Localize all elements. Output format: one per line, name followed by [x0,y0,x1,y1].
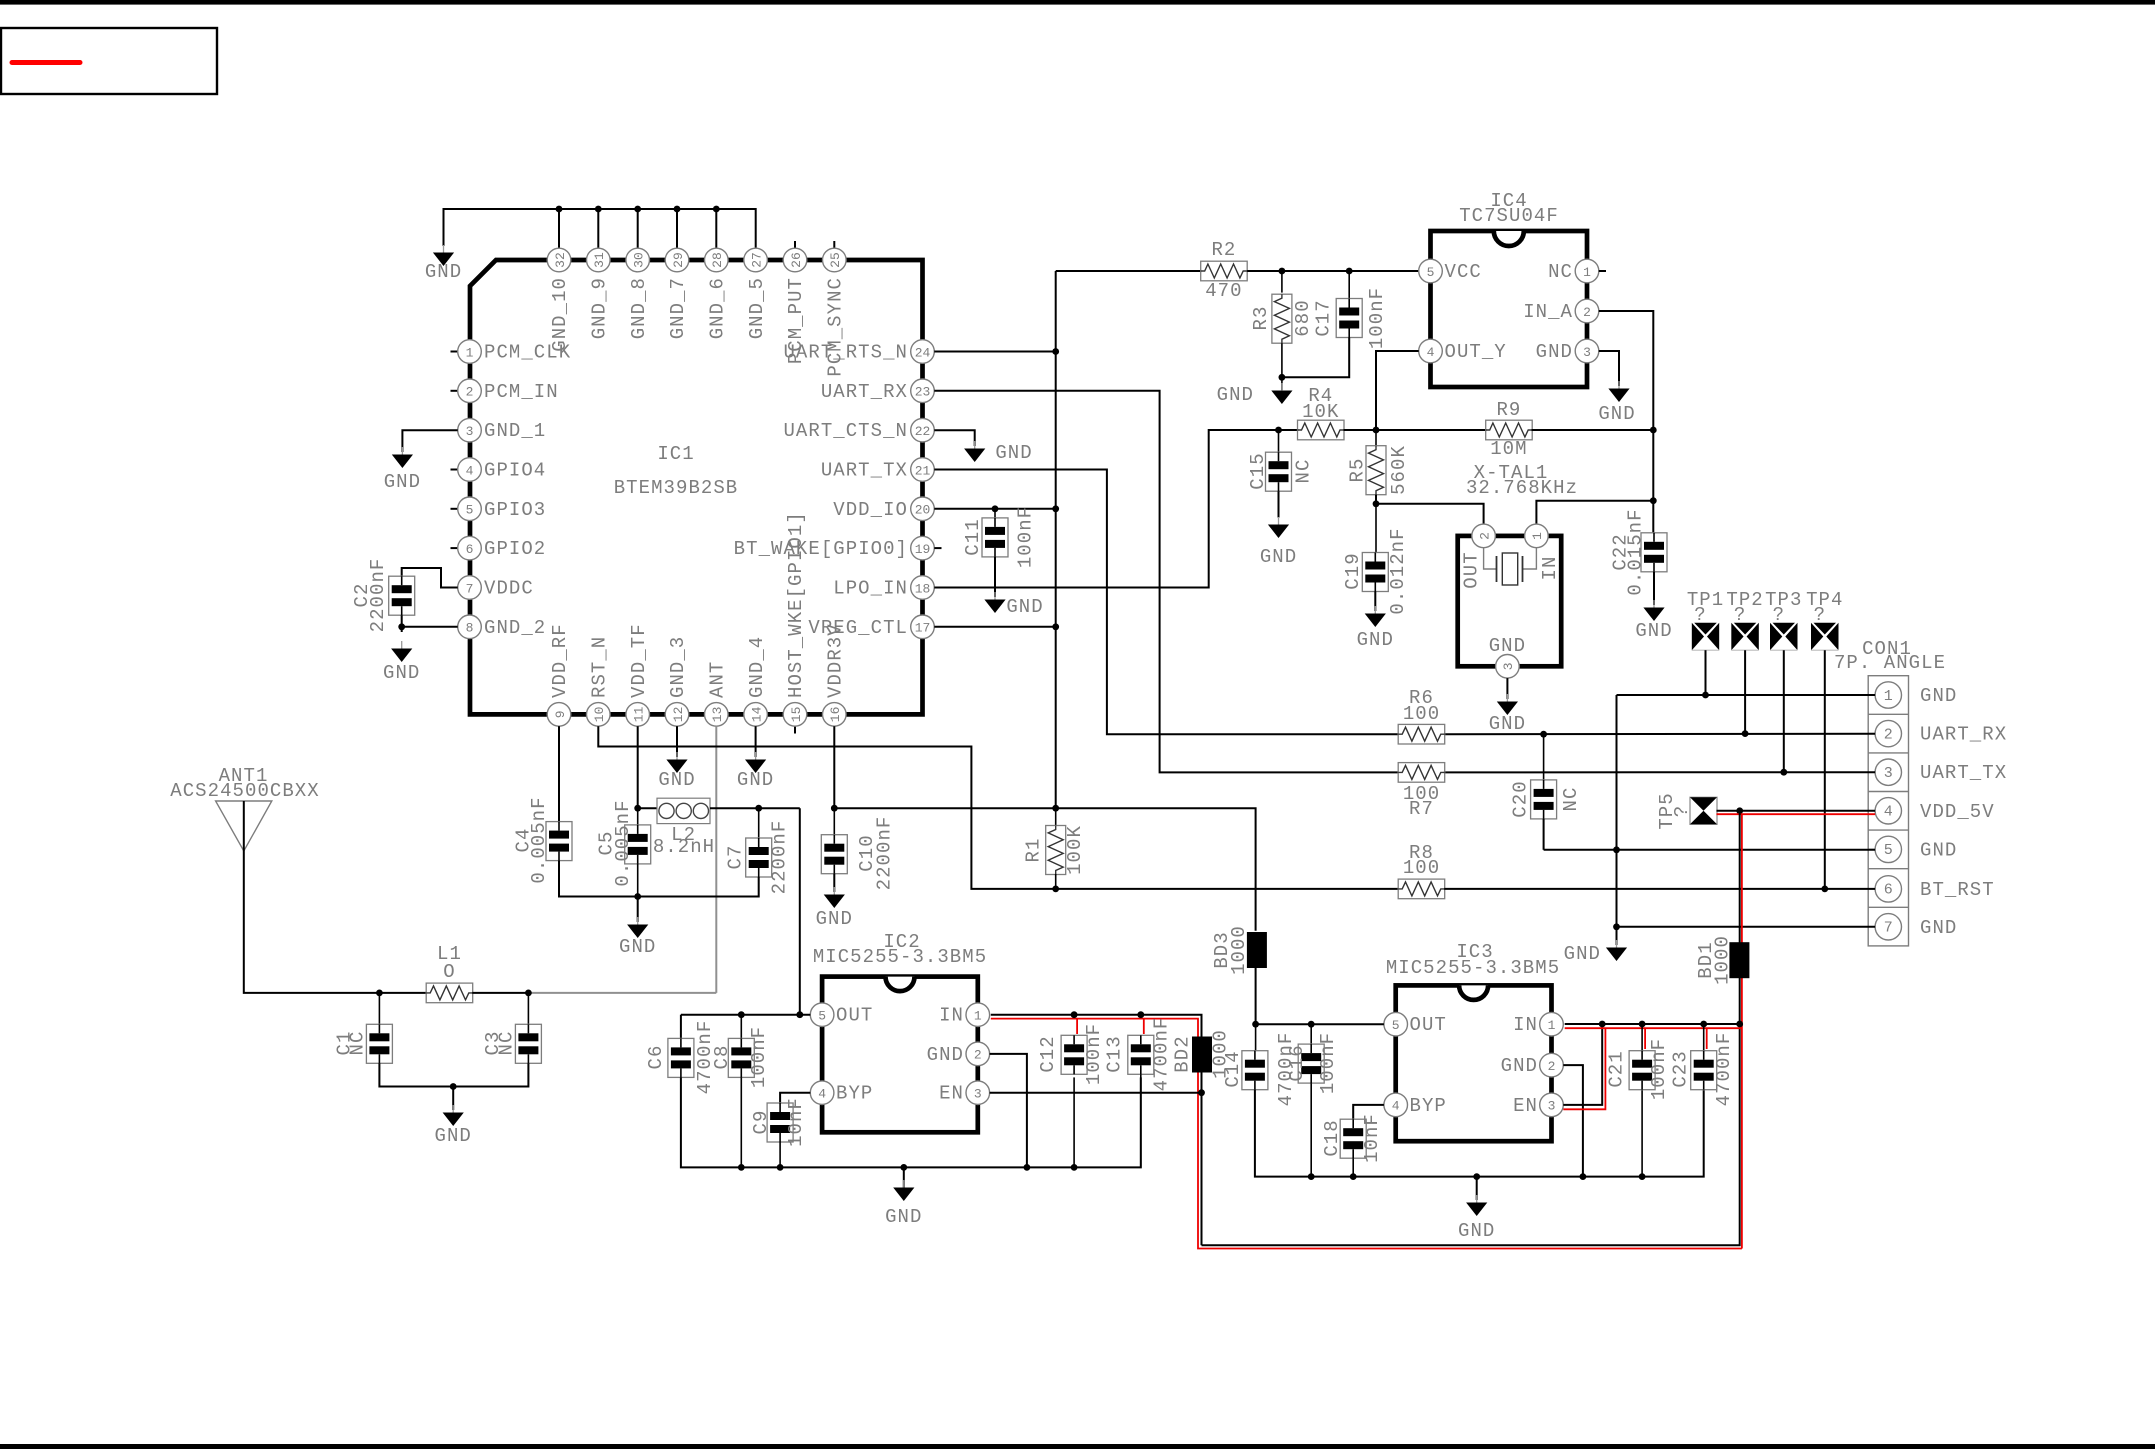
svg-text:EN: EN [939,1083,964,1105]
svg-text:GND: GND [1920,917,1957,939]
wire 3V3 rail pin16 to R1 and BD3 [834,808,1255,931]
svg-text:HOST_WKE[GPIO1]: HOST_WKE[GPIO1] [785,511,807,698]
svg-text:GND: GND [1635,620,1672,642]
junction GND tap below C5 [634,893,641,900]
wire C1/C3 to ground [379,1063,528,1086]
junction C8 top [738,1011,745,1018]
capacitor C7 [758,808,760,838]
junction C3 tap [525,990,532,997]
capacitor C3 [527,993,529,1024]
svg-text:4: 4 [1392,1099,1400,1114]
stub pin 26 [794,241,796,248]
junction IC3 pin2 gnd [1580,1173,1587,1180]
wire pin drop to GND bus [558,209,560,248]
svg-text:C14: C14 [1222,1050,1244,1087]
red wire IC3 IN [1565,1027,1742,1029]
wire C22 to ground [1653,572,1655,605]
resistor R1 [1055,808,1057,826]
svg-text:NC: NC [1560,787,1582,812]
junction C12 top [1071,1011,1078,1018]
stub pin 25 [833,241,835,248]
junction gnd stem IC3 [1473,1173,1480,1180]
pin 9 of IC1 [547,703,571,727]
testpoint TP3 [1770,623,1782,650]
pin 19 of IC1 [911,536,935,560]
stub pin 1 [451,351,458,353]
resistor R5 [1375,430,1377,446]
svg-text:560K: 560K [1388,445,1410,495]
wire pin drop to GND bus [637,209,639,248]
svg-text:OUT: OUT [1460,551,1482,588]
svg-text:5: 5 [1427,265,1435,280]
wire pin14 GND_4 [755,726,757,757]
pin 6 of CON1 [1875,876,1901,902]
pin 1 of X-TAL1 [1525,524,1549,548]
svg-text:C9: C9 [750,1110,772,1135]
pin 23 of IC1 [911,379,935,403]
ground symbol GND_4 [755,752,757,760]
svg-text:GND: GND [1536,341,1573,363]
svg-text:GND: GND [1489,713,1526,735]
pin 3 of IC2 [966,1081,990,1105]
svg-text:O: O [443,961,455,983]
svg-text:EN: EN [1513,1095,1538,1117]
svg-text:GND_2: GND_2 [484,617,546,639]
wire IC2 BYP to C9 [780,1093,810,1103]
capacitor C12 [1061,1035,1087,1074]
wire EN tie black [1563,1024,1602,1105]
svg-text:?: ? [1773,604,1785,626]
svg-text:0.015nF: 0.015nF [1625,508,1647,595]
wire pin17 VREG_CTL [934,626,1055,628]
svg-text:16: 16 [828,707,843,723]
svg-text:2: 2 [466,385,474,400]
ground symbol below C5 [637,917,639,925]
svg-text:IN_A: IN_A [1523,301,1573,323]
svg-text:GND: GND [1920,685,1957,707]
svg-text:7: 7 [466,581,474,596]
wire TP3 to CON1 pin3 net [1783,650,1785,772]
pin 2 of IC1 [458,379,482,403]
svg-text:OUT: OUT [836,1005,873,1027]
wire C19 to ground [1374,592,1376,612]
svg-text:GND: GND [1458,1220,1495,1242]
wire IC3 IN black [1565,1023,1740,1025]
pin 6 of IC1 [458,536,482,560]
svg-text:GND_3: GND_3 [667,636,689,698]
pin 11 of IC1 [626,703,650,727]
svg-text:2200nF: 2200nF [367,558,389,633]
svg-text:GND: GND [384,471,421,493]
svg-text:2: 2 [1548,1059,1556,1074]
pin 5 of IC2 [810,1003,834,1027]
wire L2 right to C7 top [710,807,800,809]
ground symbol below IC2 [903,1180,905,1188]
pin 4 of CON1 [1875,798,1901,824]
svg-text:4: 4 [1427,345,1435,360]
ic IC4 outline [1431,231,1588,387]
svg-text:32.768KHz: 32.768KHz [1466,477,1578,499]
pin 2 of IC3 [1540,1053,1564,1077]
junction GND/pin5 net [1613,846,1620,853]
red stub C12 [1076,1019,1078,1034]
capacitor C5 [637,808,639,825]
junction C13 top [1137,1011,1144,1018]
ground symbol UART_CTS_N [974,441,976,449]
red stub C23 [1706,1028,1708,1049]
pin 2 of IC2 [966,1042,990,1066]
pin 29 of IC1 [665,248,689,272]
wire R7 to CON1 pin3 [1444,771,1875,773]
svg-text:4: 4 [818,1087,826,1102]
svg-text:TC7SU04F: TC7SU04F [1459,205,1559,227]
top border bar [0,0,2155,5]
svg-text:13: 13 [710,707,725,723]
svg-text:BTEM39B2SB: BTEM39B2SB [614,477,739,499]
wire C20 bottom [1543,819,1545,850]
wire pin16 VDDR3V down [833,726,835,808]
svg-text:UART_TX: UART_TX [1920,762,2007,784]
wire CON1 pin1 GND [1617,694,1876,696]
svg-text:GND: GND [658,769,695,791]
svg-text:GND: GND [737,769,774,791]
svg-text:NC: NC [1293,459,1315,484]
svg-text:GND: GND [1598,403,1635,425]
capacitor C19 [1375,504,1377,553]
ground symbol below C15 [1278,517,1280,525]
wire C9 bottom [779,1142,781,1167]
stub pin 4 [451,469,458,471]
svg-text:GND: GND [435,1125,472,1147]
svg-text:100nF: 100nF [1317,1032,1339,1094]
svg-text:3: 3 [1884,765,1893,782]
svg-text:GND: GND [816,908,853,930]
capacitor C17 [1348,271,1350,299]
svg-text:10nF: 10nF [1361,1113,1383,1163]
wire IC3 pin2 GND [1563,1065,1583,1177]
svg-text:GND: GND [1564,943,1601,965]
wire CON1 pin7 GND [1617,926,1876,928]
pin 25 of IC1 [823,248,847,272]
testpoint TP2 [1731,623,1743,650]
bottom border bar [0,1444,2155,1449]
svg-text:30: 30 [632,252,647,268]
pin 28 of IC1 [705,248,729,272]
svg-text:IN: IN [1513,1014,1538,1036]
svg-text:12: 12 [671,707,686,723]
svg-text:8: 8 [466,621,474,636]
svg-text:GND_6: GND_6 [707,277,729,339]
svg-text:RST_N: RST_N [589,636,611,698]
svg-text:2200nF: 2200nF [769,820,791,895]
junction R6/TP2 [1742,730,1749,737]
pin 8 of IC1 [458,615,482,639]
svg-text:4: 4 [1884,804,1893,821]
svg-text:C17: C17 [1313,299,1335,336]
svg-text:9: 9 [553,710,568,718]
red stub C13 [1143,1019,1145,1034]
pin 20 of IC1 [911,497,935,521]
svg-text:GND_4: GND_4 [746,636,768,698]
svg-text:IN: IN [1539,556,1561,581]
svg-text:VDDC: VDDC [484,578,534,600]
svg-text:VDDR3V: VDDR3V [825,623,847,698]
svg-text:100: 100 [1403,703,1440,725]
svg-text:UART_RX: UART_RX [1920,724,2007,746]
svg-text:3: 3 [974,1087,982,1102]
junction C15 top [1275,427,1282,434]
wire IC2 pin2 GND [990,1054,1027,1168]
junction C16 top [1308,1021,1315,1028]
junction EN/BD2 [1198,1089,1205,1096]
pin 5 of IC3 [1384,1012,1408,1036]
junction C18 gnd [1350,1173,1357,1180]
wire GND vertical to pin7 net [1616,695,1618,927]
junction IN_A/XTAL1 pin1 [1650,497,1657,504]
svg-text:5: 5 [1392,1018,1400,1033]
svg-text:MIC5255-3.3BM5: MIC5255-3.3BM5 [1386,957,1560,979]
wire ANT net to pin13 (gray) [528,992,716,994]
svg-text:1: 1 [1548,1018,1556,1033]
svg-text:IN: IN [939,1005,964,1027]
svg-text:GPIO4: GPIO4 [484,460,546,482]
svg-text:24: 24 [915,345,931,360]
svg-text:1: 1 [1583,265,1591,280]
crystal X-TAL1 outline [1458,536,1562,666]
title block box [1,28,217,94]
pin 22 of IC1 [911,418,935,442]
pin 18 of IC1 [911,576,935,600]
red revision mark [12,60,80,65]
junction on GND bus [595,206,602,213]
svg-text:UART_RX: UART_RX [821,381,908,403]
svg-text:1: 1 [974,1009,982,1024]
wire EN net bottom run [1202,1024,1740,1245]
wire IC4 pin2 IN_A [1599,311,1654,533]
svg-text:3: 3 [1501,662,1516,670]
wire C15 to ground [1278,491,1280,517]
pin 13 of IC1 [705,703,729,727]
svg-text:6: 6 [466,542,474,557]
svg-text:29: 29 [671,252,686,268]
stub pin 1 of IC4 [1599,270,1606,272]
pin 3 of X-TAL1 [1496,655,1520,679]
svg-text:0.012nF: 0.012nF [1387,527,1409,614]
wire pin24 UART_RTS_N [934,351,1055,353]
testpoint TP5 [1690,797,1717,824]
wire C16 bottom [1310,1083,1312,1177]
svg-text:BYP: BYP [836,1083,873,1105]
wire gnd stem IC3 [1476,1177,1478,1200]
svg-text:C11: C11 [962,518,984,555]
junction TP4 [1821,886,1828,893]
wire R2 to IC4 VCC [1247,270,1419,272]
wire IC2 gnd bus [681,1077,1141,1167]
capacitor C4 [546,822,572,861]
red wire BD1 vertical [1741,814,1743,1248]
svg-text:GND_7: GND_7 [667,277,689,339]
junction pin2 gnd [1024,1164,1031,1171]
ground symbol below X-TAL1 [1506,694,1508,702]
svg-text:LPO_IN: LPO_IN [833,578,908,600]
svg-text:NC: NC [1548,261,1573,283]
svg-text:NC: NC [347,1031,369,1056]
svg-text:GND: GND [1501,1055,1538,1077]
wire pin8 GND_2 [402,626,457,628]
wire pin23 UART_RX [934,391,1398,773]
wire gnd stem IC2 [903,1167,905,1188]
svg-text:1000: 1000 [1712,935,1734,985]
junction OUT_Y/R5 [1373,427,1380,434]
wire IC2 OUT rail [681,1014,810,1016]
svg-text:R7: R7 [1409,798,1434,820]
svg-text:R3: R3 [1250,306,1272,331]
pin 1 of IC3 [1540,1012,1564,1036]
wire pin7 VDDC to C2 [402,568,458,588]
ground symbol below IC4 pin3 [1618,381,1620,389]
junction C12 gnd [1071,1164,1078,1171]
svg-text:1: 1 [1530,532,1545,540]
junction BD1 tap [1736,807,1743,814]
svg-text:21: 21 [915,463,931,478]
svg-text:1: 1 [466,345,474,360]
svg-text:GND: GND [425,261,462,283]
svg-text:VDD_TF: VDD_TF [628,623,650,698]
capacitor C20 [1543,734,1545,780]
svg-text:GND: GND [927,1044,964,1066]
junction gnd stem IC2 [900,1164,907,1171]
svg-text:UART_RTS_N: UART_RTS_N [783,342,908,364]
svg-text:OUT_Y: OUT_Y [1445,341,1507,363]
svg-text:19: 19 [915,542,931,557]
wire IC2 EN [990,1092,1202,1094]
svg-text:100: 100 [1403,857,1440,879]
junction C7 top [755,805,762,812]
wire pin21 UART_TX [934,470,1398,735]
svg-text:4700nF: 4700nF [1151,1017,1173,1092]
pin 7 of IC1 [458,576,482,600]
junction on GND bus [634,206,641,213]
svg-text:?: ? [1694,604,1706,626]
ferrite bead BD1 [1729,942,1749,978]
ground symbol below C1/C3 [452,1105,454,1113]
ferrite bead BD2 [1192,1037,1212,1073]
pin 1 of IC1 [458,340,482,364]
capacitor C21 [1641,1024,1643,1051]
svg-text:22: 22 [915,424,931,439]
capacitor C1 [378,993,380,1024]
wire BD3 to IC3 OUT net [1255,968,1257,1024]
ic IC3 outline [1396,985,1552,1141]
wire C4/C5/C7 bottom bus [559,861,759,897]
capacitor C15 [1278,430,1280,452]
svg-text:2: 2 [1477,532,1492,540]
junction C21 top [1639,1021,1646,1028]
junction R1 bottom [1052,886,1059,893]
wire C21 bottom [1641,1090,1643,1177]
capacitor C23 [1703,1024,1705,1051]
svg-text:?: ? [1814,604,1826,626]
capacitor C14 [1255,1024,1257,1051]
wire TP5 to CON1 pin4 [1717,810,1876,812]
junction IN_A/R9 [1650,427,1657,434]
svg-text:BYP: BYP [1410,1095,1447,1117]
wire IC3 gnd bus [1255,1090,1704,1177]
pin 14 of IC1 [744,703,768,727]
svg-text:GND_1: GND_1 [484,420,546,442]
junction on GND bus [556,206,563,213]
wire TP1 to CON1 pin1 net [1705,650,1707,695]
wire pin12 GND_3 [676,726,678,757]
svg-text:BD2: BD2 [1172,1035,1194,1072]
wire BD1 vertical black [1739,811,1741,1024]
svg-text:GPIO3: GPIO3 [484,499,546,521]
junction ground tap [450,1083,457,1090]
ground symbol below C10 [833,887,835,895]
svg-text:7P. ANGLE: 7P. ANGLE [1834,652,1946,674]
svg-text:VDD_IO: VDD_IO [833,499,908,521]
inductor L2 [638,807,657,809]
svg-text:?: ? [1671,805,1693,817]
svg-text:14: 14 [749,706,764,722]
pin 2 of CON1 [1875,720,1901,746]
svg-text:BT_WAKE[GPIO0]: BT_WAKE[GPIO0] [734,538,908,560]
wire C10 to ground [833,874,835,892]
svg-text:C8: C8 [711,1045,733,1070]
svg-text:GND: GND [1260,546,1297,568]
svg-text:10M: 10M [1490,438,1527,460]
svg-text:1000: 1000 [1228,925,1250,975]
pin 31 of IC1 [587,248,611,272]
resistor R8 [1398,879,1445,899]
svg-text:GND: GND [1217,384,1254,406]
svg-text:17: 17 [915,621,931,636]
ground symbol top-left of IC1 [443,245,445,253]
svg-text:GPIO2: GPIO2 [484,538,546,560]
svg-text:2: 2 [1884,726,1893,743]
wire C12 bottom [1073,1077,1075,1167]
svg-text:GND_8: GND_8 [628,277,650,339]
pin 1 of CON1 [1875,682,1901,708]
ground symbol below C19 [1374,606,1376,614]
capacitor C6 [680,1015,682,1039]
ground symbol below C2 [401,641,403,649]
red wire VDD_5V TP5 to pin4 [1717,813,1876,815]
wire GND stem [1616,927,1618,945]
junction R3 bottom [1279,374,1286,381]
svg-text:100nF: 100nF [1015,506,1037,568]
svg-text:100K: 100K [1064,825,1086,875]
junction C20 top on UART net [1540,731,1547,738]
pin 24 of IC1 [911,340,935,364]
svg-text:15: 15 [789,707,804,723]
wire R8 to CON1 pin6 [1444,888,1875,890]
svg-text:PCM_IN: PCM_IN [484,381,559,403]
junction C8 gnd [738,1164,745,1171]
svg-text:GND: GND [1489,635,1526,657]
wire IC4 pin4 OUT_Y down [1376,351,1419,430]
wire pin10 RST_N to BT_RST [598,726,1398,889]
svg-text:5: 5 [1884,842,1893,859]
svg-text:10nF: 10nF [785,1097,807,1147]
wire ANT net vertical to pin13 (gray) [715,726,717,993]
svg-text:5: 5 [818,1009,826,1024]
svg-text:C15: C15 [1247,452,1269,489]
junction on GND bus [674,206,681,213]
wire to R2 [1056,270,1201,272]
wire IC4 pin3 to ground [1599,351,1619,386]
pin 5 of IC4 [1419,259,1443,283]
